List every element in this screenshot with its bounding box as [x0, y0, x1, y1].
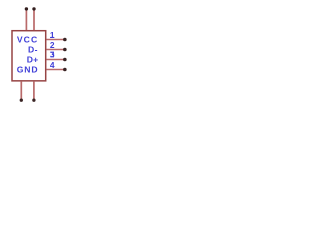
pin 1	[46, 39, 63, 41]
svg-text:VCC: VCC	[17, 35, 38, 45]
junction	[25, 7, 28, 10]
pin number 3	[50, 52, 54, 57]
junction	[20, 99, 23, 102]
junction	[32, 7, 35, 10]
wire	[33, 82, 35, 100]
svg-text:D-: D-	[28, 45, 38, 55]
svg-text:2: 2	[50, 40, 55, 50]
pin 4	[46, 69, 63, 71]
pin 3	[46, 59, 63, 61]
node pin 2 end	[63, 48, 67, 52]
pin number 1	[50, 30, 55, 40]
pin 2	[46, 49, 63, 51]
wire	[20, 82, 22, 100]
node pin 4 end	[63, 68, 67, 72]
svg-text:4: 4	[50, 60, 55, 70]
node pin 3 end	[63, 58, 67, 62]
svg-text:1: 1	[50, 30, 55, 40]
node pin 1 end	[63, 38, 67, 42]
svg-text:GND: GND	[17, 64, 39, 74]
wire	[33, 9, 35, 30]
USB connector body	[12, 31, 46, 81]
junction	[32, 99, 35, 102]
svg-text:D+: D+	[27, 55, 39, 65]
wire	[25, 9, 27, 30]
